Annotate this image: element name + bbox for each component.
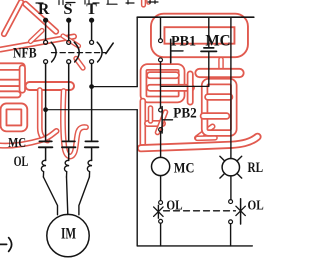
wire T to NFB [91, 20, 93, 40]
MC main contact R [39, 141, 53, 147]
mechanical link OL dashed [164, 210, 236, 212]
wire S to NFB [68, 20, 70, 40]
OL heater R [41, 160, 46, 177]
NFB handle [106, 43, 113, 54]
junction R control feed [43, 107, 48, 112]
wire MC aux join [161, 85, 209, 87]
terminal T [89, 18, 94, 23]
wire R to NFB [45, 20, 47, 40]
wire control bottom rail [137, 245, 252, 247]
NFB pole S [67, 40, 80, 63]
wire control left rail down [136, 110, 138, 246]
svg-text:R: R [38, 1, 50, 18]
pushbutton PB1 [159, 39, 183, 63]
cropped page text remnants top [36, 1, 158, 5]
pushbutton PB2 [159, 107, 173, 133]
wire RL branch from rail [230, 17, 232, 158]
lamp RL [220, 156, 242, 178]
OL contact left NC [154, 201, 164, 224]
NFB trip link dashed [52, 52, 106, 54]
wire MC aux down [208, 51, 210, 86]
MC main contact S [62, 141, 76, 147]
MC main contact T [85, 141, 99, 147]
wire T to motor [79, 177, 90, 215]
svg-text:IM: IM [61, 226, 76, 243]
coil MC [152, 157, 170, 175]
wire PB2 to MC coil [160, 132, 162, 158]
wire MC coil to OL [160, 176, 162, 201]
svg-text:PB2: PB2 [173, 106, 196, 122]
svg-text:PB1: PB1 [171, 34, 196, 50]
svg-text:OL: OL [14, 154, 29, 170]
NFB pole R [44, 40, 57, 63]
wire OL right to bottom rail [230, 224, 232, 246]
wire MC aux branch from rail [208, 17, 210, 47]
NFB pole T [90, 40, 103, 63]
motor IM [47, 214, 89, 256]
svg-text:RL: RL [248, 160, 264, 176]
wire R NFB to MC contact [45, 63, 47, 140]
svg-text:NFB: NFB [13, 46, 37, 62]
wire S MC to OL [68, 147, 70, 160]
wire T MC to OL [91, 147, 93, 160]
wire control top rail [137, 16, 254, 18]
svg-text:T: T [86, 1, 97, 18]
terminal S [66, 18, 71, 23]
junction T control feed [89, 84, 94, 89]
svg-text:S: S [63, 1, 72, 18]
svg-text:OL: OL [248, 199, 264, 214]
wire R to motor [43, 177, 57, 215]
terminal R [43, 18, 48, 23]
wire PB1 to PB2 [160, 62, 162, 108]
OL contact right NO [229, 199, 246, 224]
wire S to motor [67, 177, 68, 215]
wire S NFB to MC contact [68, 63, 70, 140]
wire T feed to control [92, 86, 138, 88]
OL heater T [87, 160, 92, 177]
wire PB1 branch from rail [160, 17, 162, 39]
wire R MC to OL [45, 147, 47, 160]
cropped caption bottom left [0, 238, 12, 252]
wire RL to OL right [230, 176, 232, 200]
wire T NFB to MC contact [91, 63, 93, 140]
wire OL left to bottom rail [160, 223, 162, 246]
MC auxiliary contact [201, 48, 217, 52]
svg-text:MC: MC [174, 160, 195, 176]
svg-text:MC: MC [8, 136, 26, 151]
wire control left riser up [136, 17, 138, 86]
OL heater S [64, 160, 69, 177]
wire R feed to control [46, 109, 138, 111]
